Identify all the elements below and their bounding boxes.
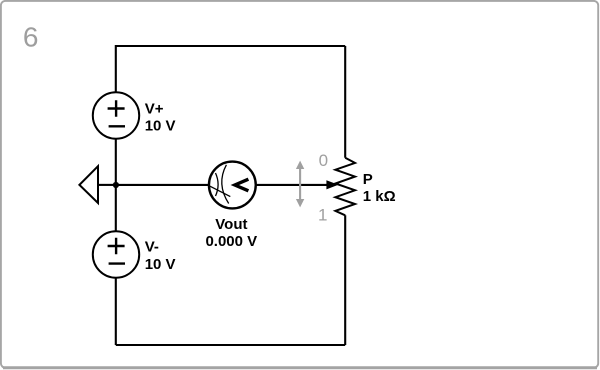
wire: junction to voltmeter	[116, 184, 210, 186]
wire: V- bottom lead	[115, 278, 117, 345]
wire: left vertical between V+ and V-	[115, 139, 117, 232]
svg-text:0: 0	[319, 151, 328, 170]
wiper drag arrow (gray)	[296, 161, 304, 208]
svg-text:10 V: 10 V	[145, 256, 176, 273]
wire: V+ top lead	[115, 45, 117, 93]
svg-text:0.000 V: 0.000 V	[205, 233, 257, 250]
svg-text:V+: V+	[145, 100, 164, 117]
svg-text:Vout: Vout	[215, 216, 247, 233]
potentiometer P body	[335, 158, 355, 216]
svg-text:1 kΩ: 1 kΩ	[363, 188, 396, 205]
wire: right rail bottom (P to bottom rail)	[344, 215, 346, 345]
junction node (V+ / V- / ground / voltmeter)	[113, 182, 119, 188]
svg-text:10 V: 10 V	[145, 118, 176, 135]
voltage source V-	[93, 231, 139, 277]
wire: bottom rail	[116, 344, 345, 346]
wire: right rail top (to P)	[344, 46, 346, 158]
svg-text:1: 1	[318, 205, 327, 224]
wiper arrowhead	[326, 180, 338, 189]
voltage source V+	[93, 92, 139, 138]
svg-text:P: P	[363, 171, 373, 188]
ground	[79, 166, 114, 203]
svg-text:V-: V-	[145, 239, 159, 256]
svg-text:6: 6	[23, 22, 39, 53]
wire: top rail from V+ top to P top	[116, 45, 345, 47]
voltmeter Vout	[208, 162, 256, 209]
wire: voltmeter to potentiometer wiper	[256, 184, 330, 186]
